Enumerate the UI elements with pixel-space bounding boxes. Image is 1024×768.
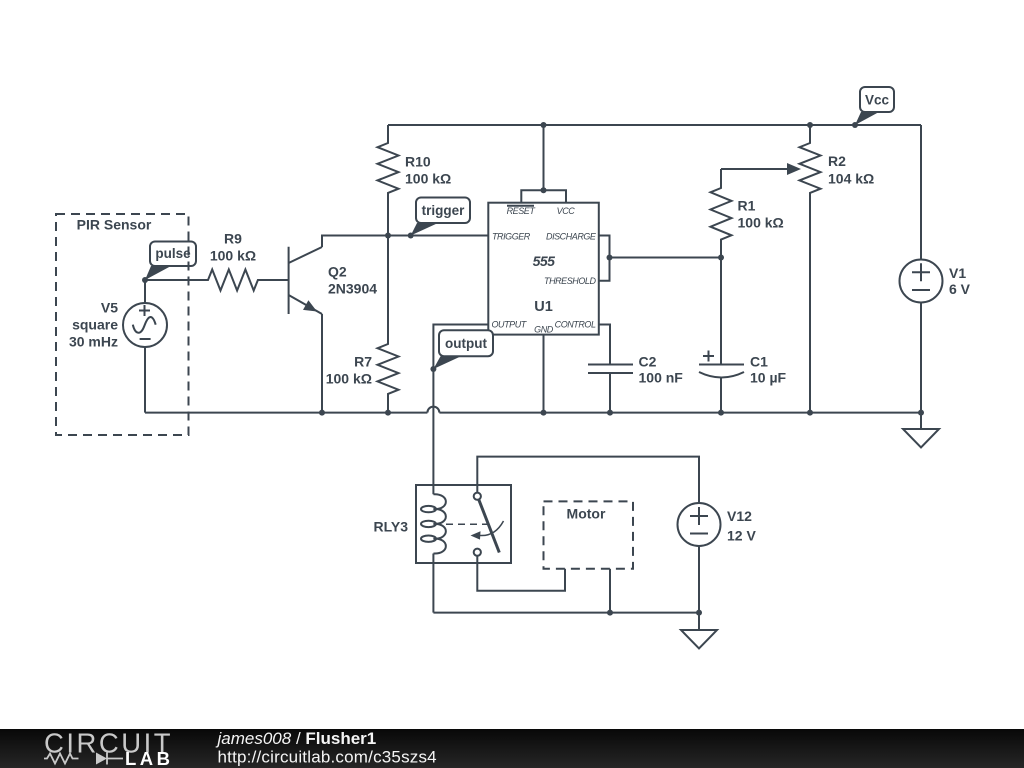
svg-text:http://circuitlab.com/c35szs4: http://circuitlab.com/c35szs4 xyxy=(218,748,437,767)
node trigger flag anchor xyxy=(408,233,414,239)
wire ground rail right part xyxy=(439,412,921,414)
wire ground rail xyxy=(145,412,427,414)
svg-text:james008 / Flusher1: james008 / Flusher1 xyxy=(216,729,377,748)
wire switch to motor xyxy=(477,556,565,591)
svg-text:100 kΩ: 100 kΩ xyxy=(326,371,372,387)
svg-text:OUTPUT: OUTPUT xyxy=(492,320,528,330)
svg-text:DISCHARGE: DISCHARGE xyxy=(546,231,597,241)
svg-text:555: 555 xyxy=(533,253,556,269)
op-amp U1 555 timer box xyxy=(488,125,599,335)
relay RLY3 xyxy=(373,485,511,563)
wire motor right lead xyxy=(609,569,611,613)
motor dashed box xyxy=(544,501,634,568)
node R1 bottom junction xyxy=(718,255,724,261)
svg-text:output: output xyxy=(445,336,487,351)
svg-text:square: square xyxy=(72,316,118,332)
potentiometer R2 xyxy=(800,125,875,413)
node C2-ground xyxy=(607,410,613,416)
voltage source V1 xyxy=(900,125,971,413)
flag pulse xyxy=(145,242,196,281)
svg-text:TRIGGER: TRIGGER xyxy=(492,231,531,241)
svg-text:30 mHz: 30 mHz xyxy=(69,334,118,350)
voltage source V12 xyxy=(678,503,757,613)
svg-text:100 kΩ: 100 kΩ xyxy=(738,214,784,230)
transistor Q2 xyxy=(258,247,377,413)
node R2-ground xyxy=(807,410,813,416)
svg-text:Q2: Q2 xyxy=(328,264,347,280)
svg-text:100 nF: 100 nF xyxy=(639,369,684,385)
wire trigger net xyxy=(322,236,488,248)
wire relay bottom rail xyxy=(433,612,699,614)
flag Vcc xyxy=(855,87,894,125)
node R7-ground xyxy=(385,410,391,416)
PIR Sensor dashed box xyxy=(56,214,189,435)
svg-text:Motor: Motor xyxy=(567,506,606,522)
svg-text:RLY3: RLY3 xyxy=(373,519,408,535)
node emitter-ground xyxy=(319,410,325,416)
svg-text:2N3904: 2N3904 xyxy=(328,281,377,297)
svg-text:GND: GND xyxy=(534,324,554,334)
flag trigger xyxy=(411,198,470,236)
node pulse flag anchor xyxy=(142,277,148,283)
svg-text:Vcc: Vcc xyxy=(865,93,890,108)
node motor-rail xyxy=(607,610,613,616)
svg-text:12 V: 12 V xyxy=(727,528,756,544)
svg-text:LAB: LAB xyxy=(125,748,174,768)
node GND pin-ground xyxy=(541,410,547,416)
relay switch xyxy=(446,493,504,556)
node top rail junction to R2 xyxy=(807,122,813,128)
svg-text:VCC: VCC xyxy=(557,206,576,216)
svg-text:104 kΩ: 104 kΩ xyxy=(828,171,874,187)
flag output xyxy=(433,330,493,369)
node trigger/R10 junction xyxy=(385,233,391,239)
node C1-ground xyxy=(718,410,724,416)
svg-text:THRESHOLD: THRESHOLD xyxy=(544,276,596,286)
svg-text:10 µF: 10 µF xyxy=(750,369,787,385)
resistor R9 xyxy=(145,230,289,290)
node V1-ground xyxy=(918,410,924,416)
svg-text:U1: U1 xyxy=(534,299,553,315)
wire R1 wiper to R2 xyxy=(721,168,789,170)
capacitor C1 xyxy=(699,258,787,413)
svg-text:R2: R2 xyxy=(828,153,846,169)
wire relay to V12 top xyxy=(477,457,699,503)
svg-text:R9: R9 xyxy=(224,230,242,246)
svg-text:pulse: pulse xyxy=(155,246,191,261)
footer bar xyxy=(0,728,1024,768)
node output flag anchor xyxy=(430,366,436,372)
node Vcc flag anchor xyxy=(852,122,858,128)
resistor R7 xyxy=(326,236,399,413)
svg-text:V12: V12 xyxy=(727,508,752,524)
wire discharge/threshold net xyxy=(599,236,721,281)
ground right xyxy=(903,413,939,448)
wire control pin to C2 xyxy=(599,325,610,365)
node V12-rail xyxy=(696,610,702,616)
ground bottom xyxy=(681,613,717,649)
svg-text:C1: C1 xyxy=(750,354,768,370)
svg-text:100 kΩ: 100 kΩ xyxy=(405,171,451,187)
node top rail junction to 555 xyxy=(541,122,547,128)
svg-text:PIR Sensor: PIR Sensor xyxy=(77,216,152,232)
svg-text:RESET: RESET xyxy=(507,206,537,216)
wire output net xyxy=(433,325,488,495)
node discharge-threshold junction xyxy=(607,255,613,261)
svg-text:trigger: trigger xyxy=(422,203,466,218)
svg-text:R10: R10 xyxy=(405,154,431,170)
svg-text:C2: C2 xyxy=(639,354,657,370)
svg-text:V1: V1 xyxy=(949,265,966,281)
wire hop over output wire xyxy=(427,407,439,413)
svg-text:R1: R1 xyxy=(738,198,756,214)
svg-text:V5: V5 xyxy=(101,299,118,315)
svg-text:R7: R7 xyxy=(354,354,372,370)
wire GND pin xyxy=(543,335,545,413)
relay coil xyxy=(421,494,446,612)
voltage source V5 xyxy=(69,280,167,413)
svg-text:6 V: 6 V xyxy=(949,281,971,297)
resistor R1 xyxy=(711,169,784,258)
svg-text:100 kΩ: 100 kΩ xyxy=(210,247,256,263)
wire top Vcc rail xyxy=(388,124,921,126)
capacitor C2 xyxy=(588,354,683,413)
resistor R10 xyxy=(378,125,452,236)
svg-text:CONTROL: CONTROL xyxy=(555,320,596,330)
